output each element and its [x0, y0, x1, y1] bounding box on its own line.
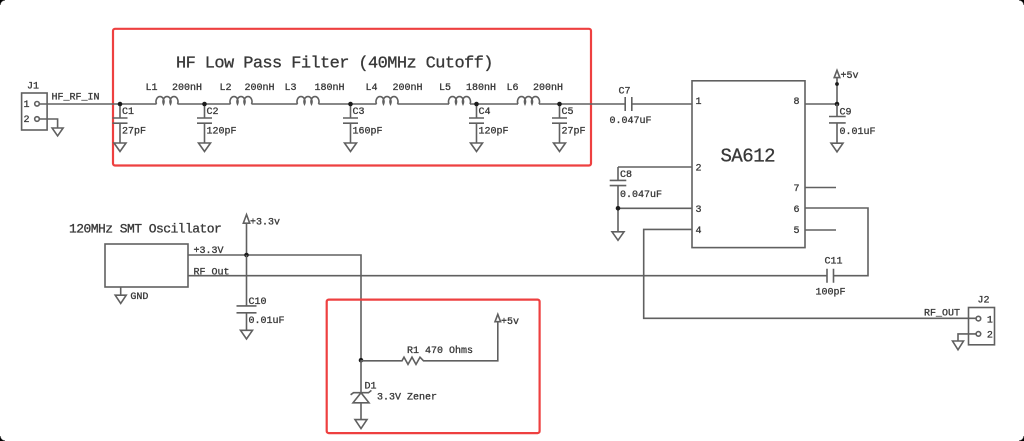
wire L1 to C2 [178, 103, 231, 105]
junction at pin8/C9 [835, 102, 840, 107]
svg-text:C7: C7 [619, 87, 631, 98]
svg-text:3.3V Zener: 3.3V Zener [377, 392, 437, 403]
wire L2 to C3 [252, 103, 298, 105]
wire pin 3 to C8 bottom [618, 207, 692, 209]
inductor L5 [449, 97, 471, 104]
svg-text:C10: C10 [249, 297, 267, 308]
junction at C5 [557, 102, 562, 107]
capacitor C3 [343, 104, 383, 143]
junction at C1 [118, 102, 123, 107]
wire pin 8 to +5v node [805, 103, 837, 105]
svg-text:200nH: 200nH [172, 83, 202, 94]
capacitor C8 [610, 167, 662, 232]
capacitor C9 [829, 104, 876, 143]
svg-text:C11: C11 [825, 257, 843, 268]
wire oscillator +3.3V to zener node [188, 255, 361, 360]
resistor R1 [361, 324, 498, 364]
svg-text:C4: C4 [479, 107, 491, 118]
ground (D1) [355, 420, 367, 429]
supply +5v (R1) [495, 314, 519, 328]
svg-text:L6: L6 [507, 83, 519, 94]
junction at C4 [474, 102, 479, 107]
supply +3.3v arrow [243, 215, 280, 255]
op-amp/mixer U1 SA612 [692, 81, 805, 248]
svg-text:+5v: +5v [501, 317, 519, 328]
svg-text:C8: C8 [620, 170, 632, 181]
ground (oscillator GND) [120, 287, 122, 295]
svg-text:200nH: 200nH [245, 83, 275, 94]
svg-text:1: 1 [987, 315, 993, 326]
connector J2 [969, 296, 995, 345]
svg-text:GND: GND [130, 292, 148, 303]
svg-text:HF Low Pass Filter (40MHz Cuto: HF Low Pass Filter (40MHz Cutoff) [176, 55, 493, 74]
supply +5v (C9) [834, 70, 858, 104]
svg-text:120pF: 120pF [207, 126, 237, 137]
svg-text:2: 2 [24, 115, 30, 126]
svg-text:200nH: 200nH [533, 83, 563, 94]
svg-text:1: 1 [696, 97, 702, 108]
ground (C4) [471, 143, 483, 152]
wire C7 to SA612 pin 1 [632, 103, 692, 105]
svg-text:L5: L5 [439, 83, 451, 94]
junction at C8/pin3 [616, 206, 621, 211]
junction at C3 [348, 102, 353, 107]
svg-text:L4: L4 [366, 83, 378, 94]
ground (C2) [199, 143, 211, 152]
ground (C3) [345, 143, 357, 152]
ground (C9) [831, 143, 843, 152]
svg-text:+5v: +5v [841, 71, 859, 82]
svg-text:2: 2 [987, 331, 993, 342]
svg-text:100pF: 100pF [816, 287, 846, 298]
wire pin 2 to C8 [618, 166, 692, 168]
capacitor C1 [113, 104, 147, 143]
svg-text:RF Out: RF Out [194, 267, 230, 278]
inductor L2 [230, 97, 252, 104]
svg-text:C1: C1 [122, 107, 134, 118]
inductor L1 [156, 97, 178, 104]
red annotation box: HF Low Pass Filter [113, 29, 591, 166]
svg-text:6: 6 [794, 205, 800, 216]
svg-text:L3: L3 [285, 83, 297, 94]
wire J1 pin 2 to ground [39, 119, 57, 128]
wire L5 to L6 [470, 103, 518, 105]
svg-text:RF_OUT: RF_OUT [924, 309, 960, 320]
wire C1 to L1 [120, 103, 157, 105]
ground (C5) [554, 143, 566, 152]
svg-text:L2: L2 [220, 83, 232, 94]
svg-text:160pF: 160pF [353, 126, 383, 137]
svg-text:180nH: 180nH [466, 83, 496, 94]
svg-text:7: 7 [794, 184, 800, 195]
capacitor C2 [197, 104, 237, 143]
junction at +3.3v [244, 253, 249, 258]
svg-text:C3: C3 [353, 107, 365, 118]
svg-text:120MHz SMT Oscillator: 120MHz SMT Oscillator [69, 222, 221, 237]
svg-text:0.01uF: 0.01uF [840, 127, 876, 138]
svg-text:0.047uF: 0.047uF [620, 190, 662, 201]
inductor L3 [297, 97, 319, 104]
wire J2 pin 2 to ground [958, 334, 976, 341]
wire L4 to L5 [398, 103, 450, 105]
svg-text:+3.3v: +3.3v [250, 218, 280, 229]
svg-text:120pF: 120pF [479, 126, 509, 137]
ground (J1 pin 2) [52, 128, 63, 136]
svg-text:0.01uF: 0.01uF [249, 316, 285, 327]
inductor L6 [518, 97, 540, 104]
ground (J2 pin 2) [953, 341, 964, 350]
ground (C1) [114, 143, 126, 152]
svg-text:4: 4 [696, 226, 702, 237]
svg-text:3: 3 [696, 205, 702, 216]
svg-text:5: 5 [794, 226, 800, 237]
ground (C8) [612, 232, 624, 241]
inductor L4 [376, 97, 398, 104]
svg-text:180nH: 180nH [315, 83, 345, 94]
svg-text:C2: C2 [207, 107, 219, 118]
wire +3.3v rail down to C10 [246, 255, 248, 306]
capacitor C10 [237, 297, 285, 330]
wire pin 6 to C11 [805, 208, 868, 276]
oscillator module box [69, 222, 230, 288]
svg-text:C5: C5 [562, 107, 574, 118]
connector J1 [22, 81, 47, 130]
wire pin 4 to J2 pin 1 [644, 229, 977, 318]
svg-text:8: 8 [794, 97, 800, 108]
capacitor C11 (series) [816, 257, 846, 299]
capacitor C4 [469, 104, 509, 143]
wire L6 to C7 [539, 103, 625, 105]
capacitor C7 (series) [610, 87, 652, 128]
svg-text:L1: L1 [146, 83, 158, 94]
junction at C2 [202, 102, 207, 107]
svg-text:2: 2 [696, 163, 702, 174]
svg-text:SA612: SA612 [721, 146, 776, 168]
wire pin 7 stub [805, 187, 836, 189]
svg-text:D1: D1 [365, 381, 377, 392]
svg-text:C9: C9 [840, 108, 852, 119]
diode D1 (zener) [351, 360, 437, 419]
svg-text:R1 470 Ohms: R1 470 Ohms [407, 345, 473, 357]
wire J1 pin 1 to C1 [39, 103, 120, 105]
junction at R1/D1 node [359, 358, 364, 363]
svg-text:J2: J2 [978, 296, 990, 307]
wire pin 5 stub [805, 229, 836, 231]
capacitor C5 [552, 104, 586, 143]
svg-text:27pF: 27pF [562, 126, 586, 137]
svg-text:200nH: 200nH [393, 83, 423, 94]
red annotation box: zener regulator [327, 300, 540, 434]
svg-text:1: 1 [24, 100, 30, 111]
svg-text:0.047uF: 0.047uF [610, 116, 652, 127]
wire L3 to C4 wire segment [319, 103, 377, 105]
wire oscillator RF Out to C11 [188, 275, 827, 277]
ground (C10) [241, 330, 253, 339]
svg-text:J1: J1 [27, 81, 39, 92]
svg-text:HF_RF_IN: HF_RF_IN [52, 93, 100, 104]
svg-text:27pF: 27pF [122, 126, 146, 137]
